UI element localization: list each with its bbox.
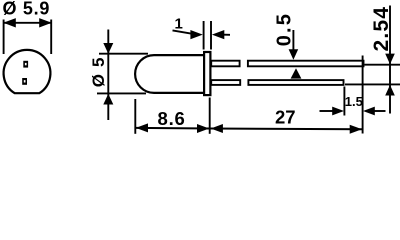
arrowhead 2.54 up: [385, 85, 395, 96]
arrowhead Ø5 bottom: [103, 94, 113, 105]
arrowhead 8.6 right: [197, 124, 209, 133]
top lead stub: [211, 61, 239, 67]
bottom lead main: [248, 80, 343, 85]
pin 1 cross-section (bottom view upper): [23, 61, 28, 68]
arrowhead 1.5 left: [332, 107, 344, 116]
dimension line 0.5: [292, 30, 294, 50]
svg-text:8.6: 8.6: [158, 108, 186, 129]
dimension line 27: [210, 128, 362, 131]
extension line 1.5 right / 27 right (from top lead end): [362, 56, 364, 134]
svg-text:27: 27: [275, 107, 296, 128]
dimension line Ø5.9: [4, 22, 51, 24]
dimension tail line 1.5 left: [320, 110, 334, 112]
extension line Ø5 bottom: [97, 92, 146, 94]
extension line Ø5 top: [99, 53, 148, 55]
LED body side view (dome): [135, 55, 204, 93]
svg-text:0.5: 0.5: [274, 12, 296, 46]
arrowhead 1 left: [190, 30, 202, 39]
bottom lead stub: [211, 80, 240, 85]
dimension tail line 1 left: [173, 30, 192, 33]
extension line 1 right: [210, 21, 212, 50]
arrowhead Ø5.9 left: [3, 18, 16, 27]
arrowhead Ø5 top: [103, 43, 113, 54]
LED bottom view outline (circle with flat): [4, 50, 51, 93]
extension line 2.54 top: [365, 64, 400, 66]
dimension line 8.6: [135, 127, 209, 130]
extension line 2.54 bottom: [345, 83, 400, 85]
extension line 1.5 left (from bottom lead end): [343, 87, 345, 116]
arrowhead 0.5 down: [289, 49, 299, 60]
arrowhead Ø5.9 right: [39, 18, 52, 27]
arrowhead 8.6 left: [136, 123, 148, 132]
dimension line 2.54: [389, 6, 391, 114]
top lead main: [248, 61, 364, 67]
arrowhead 27 right: [350, 125, 362, 134]
extension line 8.6 left (from dome tip): [134, 99, 136, 134]
svg-text:Ø 5: Ø 5: [89, 56, 108, 87]
arrowhead 0.5 up: [291, 68, 302, 78]
extension line Ø5.9 right: [50, 20, 52, 55]
dimension tail line 1 right: [224, 34, 230, 36]
arrowhead 27 left: [211, 124, 223, 133]
svg-text:1.5: 1.5: [345, 94, 363, 109]
LED flange side view: [204, 52, 210, 95]
dimension tail line 1.5 right: [374, 110, 386, 112]
pin 2 cross-section (bottom view lower): [22, 78, 27, 85]
arrowhead 2.54 down: [385, 54, 395, 65]
arrowhead 1.5 right: [363, 107, 375, 116]
extension line 1 left: [203, 21, 205, 50]
svg-text:Ø 5.9: Ø 5.9: [3, 0, 51, 18]
dimension line Ø5: [107, 30, 109, 121]
extension line shared 8.6/27 (from flange right): [209, 98, 211, 134]
arrowhead 1 right: [212, 30, 224, 39]
extension line Ø5.9 left: [3, 20, 5, 55]
